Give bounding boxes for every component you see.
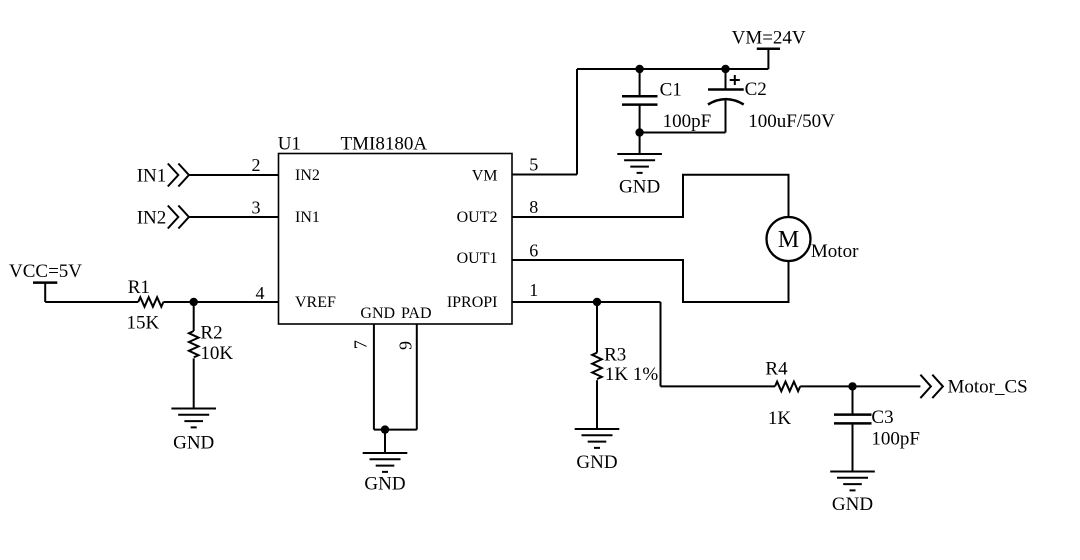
svg-text:3: 3 <box>252 198 261 218</box>
svg-text:R2: R2 <box>200 322 222 343</box>
svg-text:U1: U1 <box>278 133 301 154</box>
wire IN1 to pin 2 <box>190 174 279 176</box>
wire C2 bottom <box>725 101 727 133</box>
svg-text:IN1: IN1 <box>295 209 320 226</box>
svg-text:100pF: 100pF <box>871 428 920 449</box>
capacitor C3 <box>834 415 872 424</box>
wire R3 to GND <box>596 380 598 429</box>
ground symbol below C3 <box>830 472 875 491</box>
input arrow IN1 <box>168 164 189 187</box>
output arrow Motor_CS <box>920 375 943 398</box>
node junction C2 top <box>721 65 729 73</box>
wire IN2 to pin 3 <box>190 216 279 218</box>
ground symbol below R3 <box>575 429 620 448</box>
svg-text:M: M <box>778 227 799 253</box>
svg-text:100uF/50V: 100uF/50V <box>748 111 835 132</box>
svg-text:4: 4 <box>256 283 265 303</box>
wire pin 8 OUT2 to motor <box>512 175 789 218</box>
svg-text:R3: R3 <box>604 345 626 366</box>
wire VCC to R1 <box>45 301 138 303</box>
wire junction to R3 <box>596 302 598 353</box>
wire VM stem <box>767 49 769 69</box>
svg-text:C1: C1 <box>660 80 682 101</box>
node junction R3 top <box>593 298 601 306</box>
op-amp U1 chip body TMI8180A <box>279 154 513 325</box>
wire C1 bottom <box>639 105 641 133</box>
capacitor C1 <box>622 96 658 104</box>
input arrow IN2 <box>168 206 189 229</box>
wire C1 bottom to C2 bottom <box>640 132 726 134</box>
svg-text:IN2: IN2 <box>137 207 167 228</box>
wire pin 6 OUT1 to motor <box>512 260 789 302</box>
node junction C1 top <box>635 65 643 73</box>
svg-text:VREF: VREF <box>295 294 336 311</box>
svg-text:IPROPI: IPROPI <box>447 294 498 311</box>
node junction R1/R2/VREF <box>190 298 198 306</box>
wire C3 to GND <box>852 423 854 471</box>
wire junction to R2 <box>193 302 195 331</box>
svg-text:9: 9 <box>395 341 415 350</box>
svg-text:C2: C2 <box>745 79 767 100</box>
wire C1 to GND <box>639 133 641 155</box>
svg-text:5: 5 <box>529 155 538 175</box>
wire pin 1 IPROPI <box>512 301 661 303</box>
wire C3 top <box>852 386 854 414</box>
svg-text:GND: GND <box>360 305 395 322</box>
wire VM rail <box>577 68 768 70</box>
svg-text:Motor_CS: Motor_CS <box>948 377 1028 398</box>
svg-text:OUT2: OUT2 <box>457 209 498 226</box>
svg-text:GND: GND <box>364 473 405 494</box>
svg-text:VCC=5V: VCC=5V <box>9 261 82 282</box>
resistor R4 <box>775 382 800 392</box>
resistor R2 <box>189 331 199 357</box>
svg-text:VM=24V: VM=24V <box>732 28 806 49</box>
svg-text:IN1: IN1 <box>137 165 167 186</box>
plus sign C2 polarity <box>730 75 740 85</box>
wire C2 top <box>725 69 727 90</box>
wire rail drop to pin 5 <box>576 69 578 175</box>
wire pin 5 <box>512 174 577 176</box>
svg-text:C3: C3 <box>871 407 893 428</box>
node junction C1 bottom <box>635 128 643 136</box>
node junction C3 top <box>848 382 856 390</box>
svg-text:PAD: PAD <box>401 305 432 322</box>
svg-text:8: 8 <box>529 197 538 217</box>
svg-text:GND: GND <box>576 452 617 473</box>
motor M1 circle <box>767 217 811 261</box>
power bar VCC <box>33 281 57 284</box>
svg-text:VM: VM <box>472 167 498 184</box>
wire to R4 <box>661 385 776 387</box>
svg-text:7: 7 <box>351 340 371 349</box>
svg-text:100pF: 100pF <box>663 111 712 132</box>
svg-text:2: 2 <box>252 155 261 175</box>
svg-text:15K: 15K <box>127 313 160 334</box>
wire pad bottom <box>374 429 417 431</box>
capacitor C2 (polarized) <box>708 88 744 91</box>
svg-text:6: 6 <box>529 241 538 261</box>
wire VCC stem <box>44 283 46 302</box>
resistor R3 <box>592 353 602 379</box>
svg-text:GND: GND <box>173 432 214 453</box>
svg-text:GND: GND <box>832 494 873 515</box>
wire R2 to GND <box>193 358 195 408</box>
resistor R1 <box>138 297 163 307</box>
wire IPROPI down <box>660 302 662 386</box>
ground symbol below C1 <box>617 154 662 173</box>
wire R4 to arrow <box>800 385 920 387</box>
ground symbol below chip <box>363 453 408 472</box>
svg-text:R1: R1 <box>128 277 150 298</box>
wire pin 9 <box>416 324 418 430</box>
svg-text:TMI8180A: TMI8180A <box>341 133 428 154</box>
power bar VM <box>757 48 780 51</box>
node junction pad/gnd <box>381 425 389 433</box>
svg-text:IN2: IN2 <box>295 167 320 184</box>
svg-text:1K: 1K <box>768 408 792 429</box>
wire to GND below chip <box>384 430 386 453</box>
svg-text:1: 1 <box>529 280 538 300</box>
svg-text:R4: R4 <box>765 359 788 380</box>
svg-text:GND: GND <box>619 177 660 198</box>
svg-text:OUT1: OUT1 <box>457 250 498 267</box>
wire C1 top <box>639 69 641 96</box>
wire R1 to pin 4 <box>163 301 278 303</box>
svg-text:Motor: Motor <box>811 241 859 262</box>
svg-text:10K: 10K <box>200 343 233 364</box>
ground symbol below R2 <box>171 409 216 428</box>
svg-text:1K 1%: 1K 1% <box>605 364 658 385</box>
wire pin 7 <box>373 324 375 430</box>
